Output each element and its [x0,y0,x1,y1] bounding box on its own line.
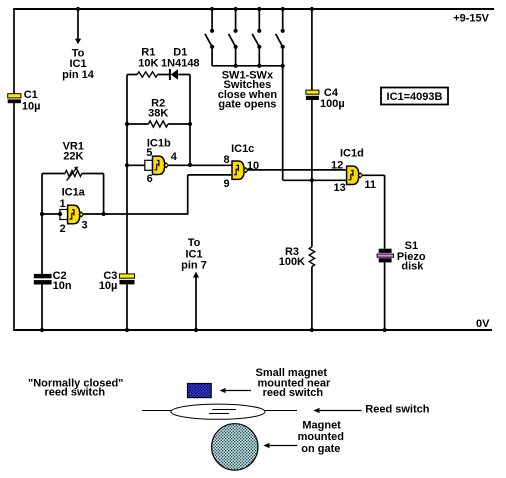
svg-text:9: 9 [224,178,230,190]
svg-text:6: 6 [147,173,153,185]
svg-text:C1: C1 [24,89,38,101]
svg-text:10: 10 [247,160,259,172]
svg-text:100K: 100K [279,256,305,268]
svg-text:IC1=4093B: IC1=4093B [387,91,443,103]
svg-text:1N4148: 1N4148 [161,57,200,69]
svg-text:38K: 38K [148,107,168,119]
svg-text:10µ: 10µ [22,101,41,113]
svg-text:13: 13 [333,182,345,194]
svg-text:Reed switch: Reed switch [365,403,429,415]
svg-text:IC1a: IC1a [62,186,86,198]
svg-text:12: 12 [331,159,343,171]
svg-text:on gate: on gate [301,443,340,455]
svg-text:22K: 22K [63,151,83,163]
svg-text:3: 3 [82,220,88,232]
svg-text:10K: 10K [138,57,158,69]
svg-text:2: 2 [60,223,66,235]
svg-text:pin 14: pin 14 [62,69,95,81]
svg-text:disk: disk [401,260,424,272]
svg-text:IC1d: IC1d [340,148,364,160]
svg-text:gate opens: gate opens [218,99,276,111]
svg-text:11: 11 [364,179,376,191]
svg-text:5: 5 [146,147,152,159]
svg-text:mounted: mounted [298,431,344,443]
svg-text:Magnet: Magnet [302,420,341,432]
svg-text:10µ: 10µ [99,280,118,292]
svg-text:reed switch: reed switch [45,387,106,399]
svg-text:4: 4 [171,151,178,163]
svg-text:reed switch: reed switch [263,387,324,399]
svg-text:To: To [188,237,201,249]
svg-text:1: 1 [59,198,65,210]
svg-text:pin 7: pin 7 [181,259,207,271]
svg-text:100µ: 100µ [320,98,345,110]
svg-text:10n: 10n [53,280,72,292]
svg-text:8: 8 [224,154,230,166]
svg-text:0V: 0V [476,318,490,330]
svg-text:+9-15V: +9-15V [453,12,489,24]
svg-text:IC1c: IC1c [231,143,254,155]
